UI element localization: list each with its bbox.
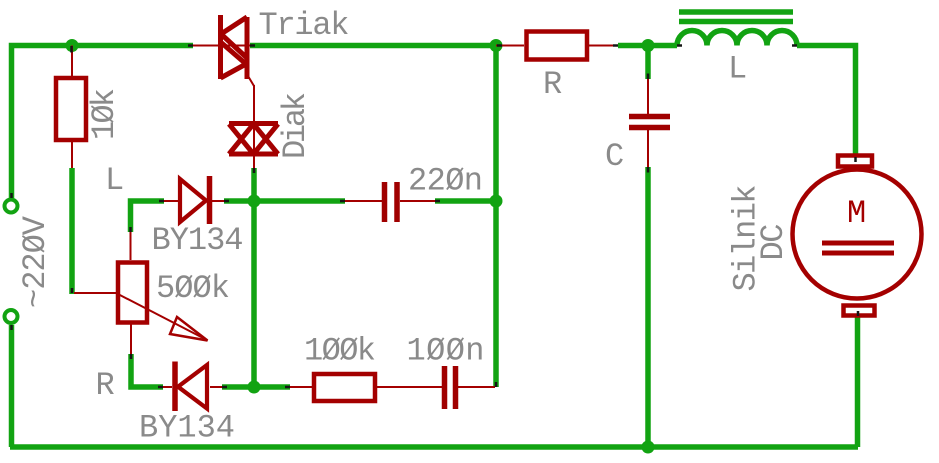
svg-text:R: R — [96, 367, 115, 404]
svg-text:1ØØk: 1ØØk — [304, 333, 376, 370]
svg-text:C: C — [605, 138, 624, 175]
svg-text:BY134: BY134 — [152, 222, 244, 259]
svg-text:Triak: Triak — [259, 7, 350, 44]
svg-text:BY134: BY134 — [139, 410, 235, 447]
svg-text:L: L — [728, 51, 747, 88]
svg-text:DC: DC — [755, 224, 792, 261]
svg-text:R: R — [543, 66, 562, 103]
svg-text:~22ØV: ~22ØV — [17, 215, 54, 308]
svg-text:22Øn: 22Øn — [408, 163, 483, 200]
svg-text:L: L — [105, 162, 124, 199]
svg-text:Diak: Diak — [277, 92, 314, 159]
svg-text:1Øk: 1Øk — [86, 88, 123, 140]
svg-text:5ØØk: 5ØØk — [156, 270, 230, 307]
svg-text:M: M — [847, 195, 866, 232]
svg-text:1ØØn: 1ØØn — [407, 333, 485, 370]
